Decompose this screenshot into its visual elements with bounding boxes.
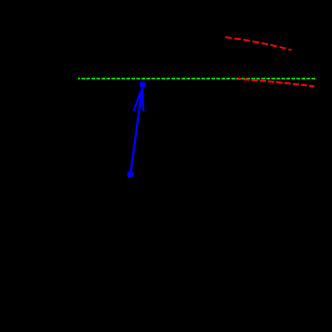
green dashed horizontal reference line: [78, 78, 316, 80]
blue arrow shaft: [130, 88, 142, 174]
blue arrow head left barb: [134, 88, 143, 111]
lower red dashed curve: [238, 79, 314, 86]
blue square marker: [140, 82, 145, 87]
blue arrow head right barb: [142, 88, 143, 111]
upper red dashed curve: [225, 37, 291, 50]
blue circle marker: [127, 171, 134, 178]
